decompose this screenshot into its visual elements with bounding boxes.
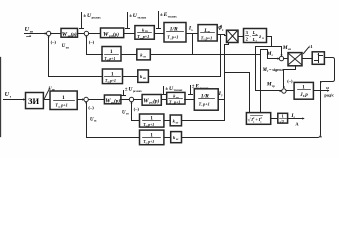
wire Wrt1 to k-block with limiter [124,33,135,35]
svg-text:(–): (–) [89,39,95,44]
svg-text:тп.max: тп.max [168,16,177,19]
wire Iq up into X1 [224,100,226,121]
wire k_tp to 1/R with limiter [155,33,165,35]
svg-text:1/R: 1/R [170,27,178,33]
svg-text:p+1: p+1 [173,100,180,105]
svg-text:±: ± [129,14,132,19]
svg-text:1: 1 [62,95,65,101]
node Uoc label [90,117,97,122]
node Iq label [218,91,223,97]
svg-text:(–): (–) [88,105,94,110]
svg-text:(p): (p) [114,98,120,105]
block k_oc [171,132,182,143]
wire X1 to gain block [239,36,244,38]
wire k2 to 1/R2 with limiter [185,99,195,101]
node Mem arrow [280,55,282,57]
limiter clamp 4 [123,91,125,96]
svg-text:рп.max: рп.max [92,17,102,20]
svg-text:signω: signω [271,67,284,72]
limiter clamp 3 [158,12,160,29]
node Uop label [62,44,69,49]
svg-text:рс.max: рс.max [133,90,142,93]
node Uz label [5,92,12,98]
svg-text:√2: √2 [279,119,284,124]
summing junction S3 [84,97,88,101]
limiter clamp 2 [127,13,129,29]
node omega label [324,85,334,98]
node Uzp label [25,27,34,33]
svg-text:(–): (–) [287,79,293,84]
svg-text:эм: эм [288,48,291,51]
wire Iq branch to sqrt block [225,73,250,113]
wire S6 to 1/Jp [287,90,295,92]
node Id label [188,26,193,32]
wire X2 to relay [303,58,313,60]
wire bottom input [4,99,25,101]
wire S5 to X2 [284,58,289,60]
svg-text:(–): (–) [51,40,57,45]
wire row B right segment [149,76,221,78]
wire sqrt to 1/sqrt2 [271,118,278,120]
wire Lm to X1 [218,34,225,36]
block 1/sqrt2 [278,113,288,123]
multiplier X2 [288,53,302,66]
block W_rp regulator [61,28,78,37]
svg-text:зп: зп [30,30,33,34]
limiter clamp 1 [81,13,83,29]
wire Wrc to S4 with limiter [121,99,130,101]
svg-text:p+1: p+1 [60,103,68,108]
block 3/2 Lm/L2 z torque gain [244,29,267,43]
node input arrow [45,32,48,34]
wire S4 to Wrt2 [134,99,143,101]
node Mc input [268,58,279,60]
wire omega output [314,90,329,92]
svg-text:p+1: p+1 [147,123,154,127]
summing junction S4 [129,97,133,101]
block k_ot1 [137,49,151,60]
wire between filterD and kD [164,137,171,139]
svg-text:p+1: p+1 [202,101,210,106]
svg-text:±: ± [83,14,86,19]
svg-text:тп.max: тп.max [137,17,146,20]
svg-text:(–): (–) [134,106,140,111]
wire between filterC and kC [164,120,171,122]
node Uzi annotation slash [45,89,50,99]
wire ZI to filter [44,99,51,101]
left edge scan artifact [0,58,2,137]
summing junction S2 [84,31,88,35]
wire Id branch to sqrt block [261,50,268,113]
wire Wrt2 to k2 with limiter [162,99,167,101]
node Mt=sign w label [262,67,284,73]
wire S2 to Wrt1 [89,33,101,35]
svg-text:p+1: p+1 [205,35,213,40]
svg-text:(p): (p) [153,98,159,105]
wire top input [25,33,47,35]
wire I output [288,118,304,120]
block Lm rotor flux [198,25,217,41]
wire row C right segment [182,120,225,122]
wire row A right segment [151,54,261,56]
svg-text:p+1: p+1 [142,34,150,39]
wire relay feedback from omega [318,58,335,138]
relay sign block [312,52,324,65]
svg-text:√: √ [248,116,251,123]
svg-text:м: м [208,31,210,34]
block k_ot2 [170,115,181,126]
svg-text:p: p [304,93,308,98]
wire filter D to S3 [87,103,140,138]
wire Psi2 feedback tap down [220,35,222,77]
svg-text:тр: тр [272,85,275,88]
svg-text:±: ± [165,87,168,92]
block sqrt current module [246,113,270,125]
wire omega feedback junction down [320,82,322,91]
block 1/R2 rotor circuit [194,89,218,110]
wire filter to S3 [78,99,84,101]
svg-text:±: ± [160,13,163,18]
block W_rt1 current regulator [101,28,124,38]
wire 1/R to Lm block [187,33,199,35]
wire Iq output [219,99,225,101]
svg-text:1: 1 [282,113,284,118]
svg-text:z: z [258,35,261,40]
node I,A label [290,113,299,127]
svg-text:±1: ±1 [308,44,313,49]
wire Wrp to S2 with limiter [78,33,85,35]
svg-text:p+1: p+1 [171,35,179,40]
wire X2 output to S6 [284,66,296,88]
summing junction S6 [282,89,286,93]
block W_rt2 current regulator [142,95,161,106]
block k_tp2 converter [167,92,185,104]
svg-text:p+1: p+1 [147,140,154,144]
svg-text:тп: тп [145,30,148,33]
wire filter A to S2 [87,37,103,55]
block ZI intensity setter [26,93,44,109]
svg-text:ω: ω [326,85,329,90]
svg-text:рад/с: рад/с [324,93,334,98]
block filter D [140,130,164,145]
block filter B [102,69,122,84]
wire Mtr branch down to S6 [256,47,282,91]
limiter clamp 6 [190,86,192,95]
block W_rc speed regulator [104,95,121,104]
wire row D right segment from omega [182,137,318,139]
svg-text:ЗИ: ЗИ [28,96,39,106]
wire filter C to S4 [132,103,140,121]
node Psi2 label [218,27,224,32]
block k_tp converter [135,26,154,40]
svg-text:1/R: 1/R [201,93,209,99]
node Mem label [282,45,291,51]
summing junction S1 [47,31,51,35]
block filter C [140,114,164,127]
node Mtr label [266,82,275,88]
block k_op [138,70,149,83]
svg-text:p+1: p+1 [109,79,116,83]
block ZI filter [50,91,77,110]
block 1/Jp inertia [294,82,313,99]
svg-text:(p): (p) [71,31,77,38]
wire S1 to Wrp [51,33,61,35]
wire Mem from gain block [267,37,282,56]
wire filter B to S1 [49,37,103,77]
summing junction S5 torque [279,56,283,60]
multiplier X1 [227,30,239,42]
wire Id tap down [192,34,194,55]
block 1/R stator circuit [164,23,186,43]
node plus-minus-1 annotation [304,48,309,54]
svg-text:p+1: p+1 [108,57,115,61]
wire between filterA and kA [121,54,137,56]
block filter A [102,47,121,62]
svg-text:оп: оп [66,46,69,49]
wire S3 to Wrc [89,99,105,101]
svg-text:±: ± [125,88,128,93]
limiter clamp 5 [163,87,165,95]
svg-text:(p): (p) [113,31,119,38]
node Uot label [122,110,129,115]
wire between filterB and kB [123,76,138,78]
